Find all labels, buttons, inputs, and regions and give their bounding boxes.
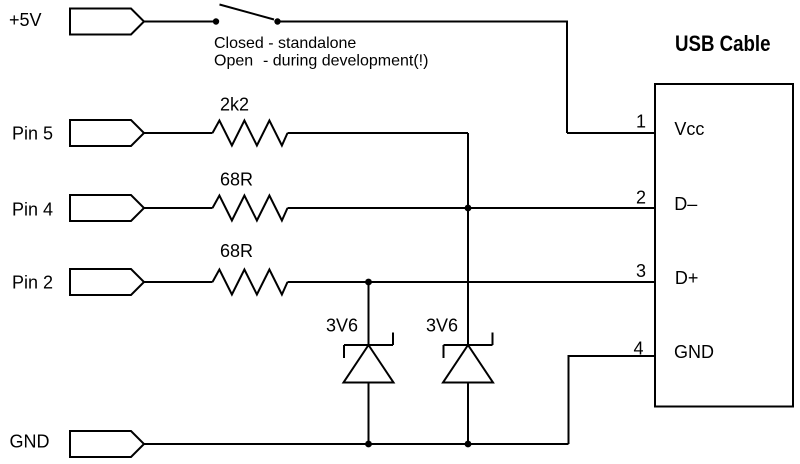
connector tag Pin 4 xyxy=(70,195,144,221)
svg-text:2k2: 2k2 xyxy=(220,95,249,115)
wire: ground riser to pin 4 xyxy=(569,356,656,444)
junction: D+ net at zener xyxy=(365,279,372,286)
resistor 2k2 xyxy=(213,121,288,146)
svg-text:+5V: +5V xyxy=(9,10,42,30)
wire: 2k2 to D- net xyxy=(288,132,469,134)
svg-text:Closed - standalone: Closed - standalone xyxy=(214,35,356,52)
wire: D- net vertical xyxy=(467,133,469,345)
svg-text:Pin 2: Pin 2 xyxy=(12,273,53,293)
resistor 68R (D+) xyxy=(213,270,288,295)
svg-text:Pin 4: Pin 4 xyxy=(12,200,53,220)
switch S1 (open) xyxy=(213,5,281,25)
svg-text:Open: Open xyxy=(214,53,253,70)
svg-text:GND: GND xyxy=(674,342,714,362)
wire: switch to Vcc corner xyxy=(278,22,568,134)
wire: 68R to pin 2 (D-) xyxy=(288,207,656,209)
svg-text:68R: 68R xyxy=(220,241,253,261)
wire: Pin 2 tag to resistor 68R xyxy=(144,281,213,283)
svg-text:- during development(!): - during development(!) xyxy=(263,53,428,70)
junction: D- net at pin 4 wire xyxy=(465,205,472,212)
wire: Pin 4 tag to resistor 68R xyxy=(144,207,213,209)
connector tag Pin 5 xyxy=(70,120,144,146)
wire: D+ net vertical xyxy=(368,282,370,345)
connector tag Pin 2 xyxy=(70,269,144,295)
wire: +5V tag to switch xyxy=(144,21,213,23)
svg-text:4: 4 xyxy=(633,339,643,359)
junction: ground at right zener xyxy=(465,441,472,448)
wire: right zener anode to ground xyxy=(467,383,469,445)
svg-text:D+: D+ xyxy=(675,268,699,288)
USB cable connector body xyxy=(655,84,793,407)
svg-text:2: 2 xyxy=(636,188,646,208)
wire: ground bus xyxy=(144,443,569,445)
resistor 68R (D-) xyxy=(213,196,288,221)
wire: 68R to pin 3 (D+) xyxy=(288,281,656,283)
svg-text:3: 3 xyxy=(636,261,646,281)
connector tag +5V xyxy=(70,9,144,35)
wire: left zener anode to ground xyxy=(368,383,370,445)
svg-text:GND: GND xyxy=(10,432,50,452)
svg-text:USB Cable: USB Cable xyxy=(675,31,771,56)
connector tag GND xyxy=(70,431,144,457)
svg-text:Vcc: Vcc xyxy=(674,119,704,139)
zener diode 3V6 (D+ clamp) xyxy=(344,333,394,383)
svg-text:1: 1 xyxy=(636,112,646,132)
svg-text:3V6: 3V6 xyxy=(426,316,458,336)
junction: ground at left zener xyxy=(365,441,372,448)
zener diode 3V6 (D- clamp) xyxy=(443,333,493,383)
wire: Pin 5 tag to resistor 2k2 xyxy=(144,132,213,134)
svg-text:D–: D– xyxy=(674,194,697,214)
wire: pin 1 (Vcc) stub xyxy=(567,132,655,134)
note: switch states xyxy=(214,35,428,70)
svg-text:Pin 5: Pin 5 xyxy=(12,124,53,144)
svg-text:3V6: 3V6 xyxy=(326,316,358,336)
svg-text:68R: 68R xyxy=(220,170,253,190)
